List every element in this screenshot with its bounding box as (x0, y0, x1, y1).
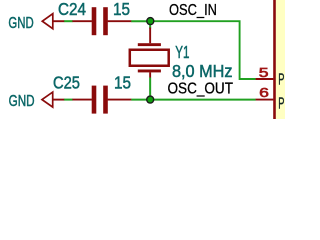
net label OSC_IN (169, 2, 217, 19)
label C25 value 15 (114, 73, 131, 93)
junction node OSC_OUT (147, 96, 154, 103)
svg-text:OSC_OUT: OSC_OUT (168, 81, 234, 98)
svg-text:OSC_IN: OSC_IN (169, 2, 217, 19)
capacitor C24 (72, 7, 131, 35)
IC U? body fill (cut off at right edge) (276, 0, 285, 119)
svg-text:5: 5 (259, 65, 269, 80)
svg-text:6: 6 (259, 85, 269, 100)
power symbol GND (top) (42, 14, 64, 29)
pin number 5 (259, 65, 269, 80)
svg-text:C24: C24 (58, 0, 86, 19)
power symbol GND (bottom) (42, 92, 64, 107)
wire crystal bottom to junction (149, 78, 151, 100)
wire OSC_OUT junction to pin 6 (150, 99, 256, 101)
svg-text:15: 15 (113, 0, 130, 19)
junction node OSC_IN (147, 18, 154, 25)
pin number 6 (259, 85, 269, 100)
svg-text:P: P (278, 96, 284, 113)
wire C24 to junction OSC_IN (131, 20, 150, 22)
label Y1 reference (175, 42, 189, 62)
pin name P... (pin 6, cut off) (278, 96, 284, 113)
wire C25 to junction OSC_OUT (131, 99, 150, 101)
capacitor C25 (72, 86, 131, 114)
label C24 reference (58, 0, 86, 19)
wire GND2 to C25 (64, 99, 73, 101)
wire GND1 to C24 (64, 20, 73, 22)
label GND (bottom) (9, 93, 35, 110)
wire crystal top to junction (149, 21, 151, 28)
label GND (top) (8, 15, 33, 32)
svg-text:GND: GND (8, 15, 33, 32)
svg-text:15: 15 (114, 73, 131, 93)
wire OSC_IN junction to pin 5 (right, down, right) (150, 21, 256, 79)
pin name P... (pin 5, cut off) (278, 72, 284, 89)
svg-text:Y1: Y1 (175, 42, 189, 62)
svg-text:GND: GND (9, 93, 35, 110)
IC U? left border edge (273, 0, 276, 119)
label Y1 value 8,0 MHz (172, 61, 233, 81)
svg-text:8,0 MHz: 8,0 MHz (172, 61, 233, 81)
label C24 value 15 (113, 0, 130, 19)
svg-text:P: P (278, 72, 284, 89)
label C25 reference (53, 73, 80, 93)
svg-text:C25: C25 (53, 73, 80, 93)
net label OSC_OUT (168, 81, 234, 98)
pin 5 line (IC) (256, 78, 274, 80)
crystal Y1 (130, 28, 169, 78)
pin 6 line (IC) (256, 99, 274, 101)
